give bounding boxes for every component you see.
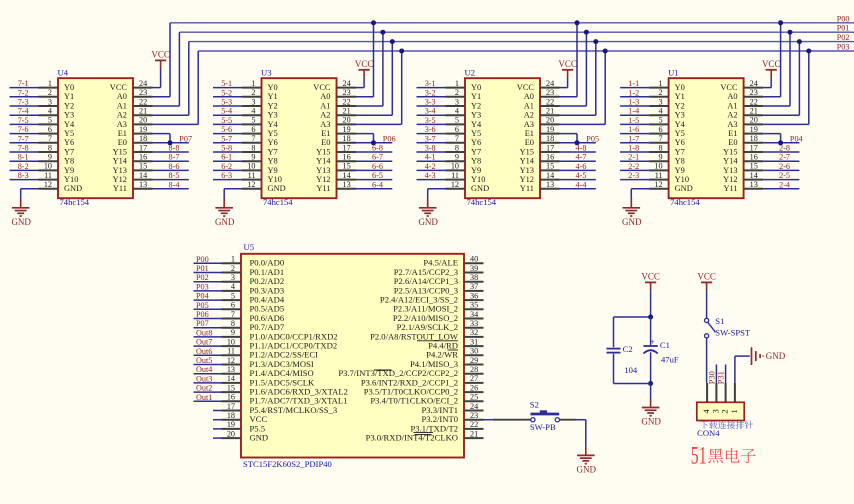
svg-text:Out5: Out5 xyxy=(196,356,212,365)
pin 28 of U5 xyxy=(464,365,484,374)
pin 11 of U4 xyxy=(39,171,59,180)
IC U3 74hc154 xyxy=(261,67,337,206)
svg-text:22: 22 xyxy=(343,97,351,106)
svg-text:Out8: Out8 xyxy=(196,328,212,337)
svg-text:GND: GND xyxy=(766,351,786,361)
pin 35 of U5 xyxy=(464,301,484,310)
svg-text:3-8: 3-8 xyxy=(425,144,436,153)
pin 15 of U2 xyxy=(540,162,560,171)
wire net 1-6 to U1 pin 6 xyxy=(620,133,649,135)
wire net 3-2 to U2 pin 2 xyxy=(417,96,446,98)
pin 20 of U2 xyxy=(540,116,560,125)
svg-text:VCC: VCC xyxy=(720,83,738,92)
wire U2 pin 23 A0 to bus P00 xyxy=(560,23,578,97)
wire net 6-3 to U3 pin 11 xyxy=(213,179,242,181)
svg-text:17: 17 xyxy=(139,143,147,152)
pin 13 of U4 xyxy=(133,180,153,189)
svg-text:P02: P02 xyxy=(837,33,850,42)
svg-text:15: 15 xyxy=(750,162,758,171)
svg-text:1: 1 xyxy=(729,409,739,413)
svg-text:9: 9 xyxy=(231,328,235,337)
pin 13 of U1 xyxy=(744,180,764,189)
pin 7 of U1 xyxy=(649,134,669,143)
wire U2 pin 20 A3 to bus P03 xyxy=(560,51,606,124)
pin 1 of U2 xyxy=(446,79,466,88)
svg-text:A1: A1 xyxy=(117,101,127,110)
svg-text:P02: P02 xyxy=(196,273,209,282)
pin 4 of U2 xyxy=(446,107,466,116)
svg-text:VCC: VCC xyxy=(110,83,128,92)
pin 4 of CON4 xyxy=(706,383,708,402)
svg-text:5-5: 5-5 xyxy=(221,116,232,125)
svg-text:28: 28 xyxy=(470,365,478,374)
IC U5 STC15F2K60S2_PDIP40 xyxy=(241,242,464,469)
svg-text:Y13: Y13 xyxy=(316,166,330,175)
svg-text:23: 23 xyxy=(343,88,351,97)
svg-text:3-4: 3-4 xyxy=(425,107,436,116)
pin 6 of U5 xyxy=(222,301,242,310)
pin 16 of U2 xyxy=(540,153,560,162)
svg-text:3-6: 3-6 xyxy=(425,125,436,134)
wire U5 pin 23 to S2 xyxy=(484,419,493,421)
pin 1 of U4 xyxy=(39,79,59,88)
svg-text:A3: A3 xyxy=(727,120,737,129)
svg-text:6: 6 xyxy=(48,125,52,134)
pin 24 of U4 xyxy=(133,79,153,88)
wire net 1-1 to U1 pin 1 xyxy=(620,87,649,89)
wire net 3-3 to U2 pin 3 xyxy=(417,105,446,107)
svg-text:19: 19 xyxy=(227,420,235,429)
wire U2 pin 22 A1 to bus P01 xyxy=(560,32,587,106)
wire net 3-8 to U2 pin 8 xyxy=(417,151,446,153)
wire U1 pin 21 A2 to bus P02 xyxy=(763,42,799,116)
capacitor C1 47uF polarized xyxy=(643,317,678,384)
wire U1 E0 pin18 net P04 xyxy=(763,142,799,144)
wire net 8-2 to U4 pin 10 xyxy=(10,169,39,171)
svg-text:1: 1 xyxy=(455,79,459,88)
bus wire P02 horizontal xyxy=(189,41,854,43)
svg-text:12: 12 xyxy=(654,180,662,189)
svg-text:P06: P06 xyxy=(196,310,209,319)
wire net 6-7 from U3 pin 16 xyxy=(356,160,392,162)
svg-text:16: 16 xyxy=(139,153,147,162)
svg-text:Out6: Out6 xyxy=(196,347,212,356)
svg-text:33: 33 xyxy=(470,319,478,328)
svg-text:4-6: 4-6 xyxy=(576,162,587,171)
pin 23 of U1 xyxy=(744,88,764,97)
pin 23 of U5 xyxy=(464,411,484,420)
svg-text:A1: A1 xyxy=(524,101,534,110)
svg-text:A2: A2 xyxy=(320,111,330,120)
pin 2 of U2 xyxy=(446,88,466,97)
svg-text:VCC: VCC xyxy=(558,59,577,69)
junction at U2 E0 xyxy=(575,140,580,145)
ground symbol at C1 xyxy=(641,398,661,427)
wire net 2-1 to U1 pin 9 xyxy=(620,160,649,162)
svg-text:23: 23 xyxy=(750,88,758,97)
svg-text:4-1: 4-1 xyxy=(425,153,436,162)
wire net 8-3 to U4 pin 11 xyxy=(10,179,39,181)
pin 5 of U1 xyxy=(649,116,669,125)
svg-text:1-7: 1-7 xyxy=(628,134,639,143)
pin 21 of U1 xyxy=(744,107,764,116)
svg-text:VCC: VCC xyxy=(355,59,374,69)
svg-text:Y1: Y1 xyxy=(471,92,481,101)
wire net 5-7 to U3 pin 7 xyxy=(213,142,242,144)
svg-text:2: 2 xyxy=(251,88,255,97)
pin 4 of U5 xyxy=(222,282,242,291)
svg-text:3-5: 3-5 xyxy=(425,116,436,125)
svg-text:19: 19 xyxy=(546,125,554,134)
wire net 7-8 to U4 pin 8 xyxy=(10,151,39,153)
svg-text:Y14: Y14 xyxy=(316,157,331,166)
svg-text:Y15: Y15 xyxy=(113,147,127,156)
svg-text:8: 8 xyxy=(231,319,235,328)
svg-text:12: 12 xyxy=(44,180,52,189)
pin 26 of U5 xyxy=(464,383,484,392)
wire U2 pin 24 to VCC xyxy=(560,78,568,88)
junction on bus P00 at U2 xyxy=(575,20,580,25)
svg-text:Y15: Y15 xyxy=(316,147,330,156)
svg-text:P03: P03 xyxy=(196,282,209,291)
svg-text:E1: E1 xyxy=(118,129,127,138)
svg-text:Y14: Y14 xyxy=(520,157,535,166)
svg-text:Y11: Y11 xyxy=(113,184,127,193)
pin 3 of U2 xyxy=(446,97,466,106)
svg-text:5: 5 xyxy=(659,116,663,125)
pin 4 of U1 xyxy=(649,107,669,116)
pin 21 of U4 xyxy=(133,107,153,116)
svg-text:11: 11 xyxy=(451,171,459,180)
svg-text:Y0: Y0 xyxy=(268,83,278,92)
svg-text:2-4: 2-4 xyxy=(779,180,790,189)
svg-text:Y7: Y7 xyxy=(471,147,481,156)
svg-text:5-1: 5-1 xyxy=(221,79,232,88)
svg-text:VCC: VCC xyxy=(517,83,535,92)
pin 12 of U3 xyxy=(242,180,262,189)
pin 12 of U4 xyxy=(39,180,59,189)
junction on bus P03 at U1 xyxy=(806,49,811,54)
svg-text:CON4: CON4 xyxy=(697,428,720,438)
svg-text:VCC: VCC xyxy=(697,271,716,281)
pin 32 of U5 xyxy=(464,328,484,337)
svg-text:7-3: 7-3 xyxy=(18,98,29,107)
svg-text:10: 10 xyxy=(44,162,52,171)
svg-text:C2: C2 xyxy=(623,344,633,354)
pin 39 of U5 xyxy=(464,264,484,273)
wire net P01 to U5 pin 2 xyxy=(194,272,222,274)
svg-text:Y0: Y0 xyxy=(471,83,481,92)
pin 30 of U5 xyxy=(464,347,484,356)
pin 6 of U1 xyxy=(649,125,669,134)
pin 8 of U4 xyxy=(39,143,59,152)
wire net 6-6 from U3 pin 15 xyxy=(356,169,392,171)
pin 33 of U5 xyxy=(464,319,484,328)
junction on bus P02 at U2 xyxy=(593,39,598,44)
svg-text:Out7: Out7 xyxy=(196,338,212,347)
svg-text:19: 19 xyxy=(343,125,351,134)
junction at U1 E0 xyxy=(778,140,783,145)
svg-text:A0: A0 xyxy=(117,92,127,101)
pin 9 of U4 xyxy=(39,153,59,162)
svg-text:3: 3 xyxy=(455,97,459,106)
pin 10 of U4 xyxy=(39,162,59,171)
svg-text:3-2: 3-2 xyxy=(425,88,436,97)
svg-text:3: 3 xyxy=(659,97,663,106)
svg-text:13: 13 xyxy=(343,180,351,189)
svg-text:10: 10 xyxy=(247,162,255,171)
wire U4 pin 24 to VCC xyxy=(153,68,161,87)
wire net 6-5 from U3 pin 14 xyxy=(356,179,392,181)
svg-text:A0: A0 xyxy=(524,92,534,101)
wire U3 pin 21 A2 to bus P02 xyxy=(356,42,392,116)
svg-text:5-7: 5-7 xyxy=(221,134,232,143)
pin 22 of U2 xyxy=(540,97,560,106)
svg-text:SW-SPST: SW-SPST xyxy=(715,328,751,338)
wire U2 E1 pin19 to E0 xyxy=(560,134,578,143)
ground symbol at CON4 sideways xyxy=(752,347,786,365)
wire net 8-8 from U4 pin 17 xyxy=(153,151,189,153)
pin 29 of U5 xyxy=(464,356,484,365)
svg-text:17: 17 xyxy=(343,143,351,152)
wire U1 pin 12 to ground xyxy=(631,189,649,208)
svg-text:74hc154: 74hc154 xyxy=(467,197,497,207)
pin 21 of U5 xyxy=(464,429,484,438)
pin 36 of U5 xyxy=(464,291,484,300)
wire stub U5 pin 18 xyxy=(213,419,222,421)
ground symbol at S2 xyxy=(577,446,597,475)
svg-text:1: 1 xyxy=(231,255,235,264)
wire U4 pin 21 A2 to bus P02 xyxy=(153,42,189,116)
svg-text:5: 5 xyxy=(455,116,459,125)
svg-text:25: 25 xyxy=(470,393,478,402)
junction on bus P02 at U3 xyxy=(390,39,395,44)
svg-text:4-5: 4-5 xyxy=(576,171,587,180)
pin 22 of U1 xyxy=(744,97,764,106)
svg-text:20: 20 xyxy=(750,116,758,125)
svg-text:Y13: Y13 xyxy=(113,166,127,175)
pin 1 of U3 xyxy=(242,79,262,88)
svg-text:40: 40 xyxy=(470,255,478,264)
pin 4 of U4 xyxy=(39,107,59,116)
svg-text:15: 15 xyxy=(343,162,351,171)
svg-text:Y9: Y9 xyxy=(268,166,278,175)
pin 13 of U2 xyxy=(540,180,560,189)
svg-text:51: 51 xyxy=(691,440,707,469)
pin 8 of U2 xyxy=(446,143,466,152)
wire net 3-5 to U2 pin 5 xyxy=(417,123,446,125)
pin 15 of U3 xyxy=(337,162,357,171)
svg-text:1: 1 xyxy=(659,79,663,88)
IC U2 74hc154 xyxy=(465,67,541,206)
bus wire P00 horizontal xyxy=(170,22,854,24)
svg-text:9: 9 xyxy=(455,153,459,162)
svg-text:Y1: Y1 xyxy=(675,92,685,101)
wire net 7-4 to U4 pin 4 xyxy=(10,114,39,116)
svg-text:P07: P07 xyxy=(196,319,209,328)
svg-text:74hc154: 74hc154 xyxy=(60,197,90,207)
svg-text:29: 29 xyxy=(470,356,478,365)
pin 17 of U5 xyxy=(222,402,242,411)
svg-text:4-7: 4-7 xyxy=(576,153,587,162)
svg-text:38: 38 xyxy=(470,273,478,282)
svg-text:1-8: 1-8 xyxy=(628,144,639,153)
svg-text:4: 4 xyxy=(455,107,459,116)
svg-text:23: 23 xyxy=(470,411,478,420)
svg-text:9: 9 xyxy=(251,153,255,162)
wire net Out3 to U5 pin 14 xyxy=(194,382,222,384)
svg-text:10: 10 xyxy=(654,162,662,171)
svg-text:20: 20 xyxy=(227,429,235,438)
pin 6 of U4 xyxy=(39,125,59,134)
wire U2 pin 12 to ground xyxy=(428,189,446,208)
svg-text:5-8: 5-8 xyxy=(221,144,232,153)
svg-text:C1: C1 xyxy=(660,340,670,350)
svg-text:Y6: Y6 xyxy=(268,138,278,147)
svg-text:17: 17 xyxy=(227,402,235,411)
svg-text:Y12: Y12 xyxy=(723,175,737,184)
svg-text:Y12: Y12 xyxy=(520,175,534,184)
svg-text:1-3: 1-3 xyxy=(628,98,639,107)
pin 25 of U5 xyxy=(464,393,484,402)
pin 13 of U3 xyxy=(337,180,357,189)
wire U3 pin 20 A3 to bus P03 xyxy=(356,51,402,124)
svg-text:Y8: Y8 xyxy=(471,157,481,166)
svg-text:5-4: 5-4 xyxy=(221,107,232,116)
svg-text:11: 11 xyxy=(655,171,663,180)
svg-text:Y9: Y9 xyxy=(675,166,685,175)
svg-text:23: 23 xyxy=(139,88,147,97)
pin 37 of U5 xyxy=(464,282,484,291)
svg-text:3-7: 3-7 xyxy=(425,134,436,143)
svg-text:Y0: Y0 xyxy=(675,83,685,92)
wire U4 pin 23 A0 to bus P00 xyxy=(153,23,171,97)
wire net Out6 to U5 pin 11 xyxy=(194,354,222,356)
pin 3 of U5 xyxy=(222,273,242,282)
power symbol VCC at U2 xyxy=(558,59,577,78)
pin 9 of U1 xyxy=(649,153,669,162)
svg-text:GND: GND xyxy=(622,217,642,227)
svg-text:Y6: Y6 xyxy=(675,138,685,147)
svg-text:P01: P01 xyxy=(196,264,209,273)
wire VCC to S1 xyxy=(706,290,708,318)
wire net P31 at CON4 pin 2 xyxy=(725,365,727,383)
svg-text:4: 4 xyxy=(48,107,52,116)
svg-text:E0: E0 xyxy=(118,138,127,147)
svg-text:2-2: 2-2 xyxy=(628,162,639,171)
pin 1 of U5 xyxy=(222,255,242,264)
svg-text:2: 2 xyxy=(659,88,663,97)
svg-text:14: 14 xyxy=(343,171,351,180)
wire U1 pin 22 A1 to bus P01 xyxy=(763,32,790,106)
svg-text:Y3: Y3 xyxy=(471,111,481,120)
IC U4 74hc154 xyxy=(58,67,134,206)
pin 21 of U3 xyxy=(337,107,357,116)
svg-text:1-5: 1-5 xyxy=(628,116,639,125)
svg-text:8-8: 8-8 xyxy=(169,144,180,153)
svg-text:P3.0/RXD/INT4/T2CLKO: P3.0/RXD/INT4/T2CLKO xyxy=(366,433,458,443)
IC U1 74hc154 xyxy=(668,67,744,206)
svg-text:7-4: 7-4 xyxy=(18,107,29,116)
wire net 7-6 to U4 pin 6 xyxy=(10,133,39,135)
svg-text:P06: P06 xyxy=(383,134,396,143)
svg-text:31: 31 xyxy=(470,337,478,346)
svg-text:15: 15 xyxy=(139,162,147,171)
wire U3 pin 22 A1 to bus P01 xyxy=(356,32,383,106)
svg-text:P07: P07 xyxy=(179,134,192,143)
svg-text:Y10: Y10 xyxy=(675,175,689,184)
svg-text:Y15: Y15 xyxy=(723,147,737,156)
svg-text:5-3: 5-3 xyxy=(221,98,232,107)
svg-text:Out1: Out1 xyxy=(196,393,212,402)
svg-text:8: 8 xyxy=(455,143,459,152)
svg-text:Y8: Y8 xyxy=(64,157,74,166)
svg-text:1-6: 1-6 xyxy=(628,125,639,134)
pin 14 of U4 xyxy=(133,171,153,180)
pin 20 of U1 xyxy=(744,116,764,125)
svg-text:Out3: Out3 xyxy=(196,374,212,383)
svg-text:18: 18 xyxy=(750,134,758,143)
text 51黑电子 xyxy=(691,440,756,469)
bus wire P03 horizontal xyxy=(198,50,854,52)
junction at C1 top xyxy=(648,315,653,320)
wire net Out7 to U5 pin 10 xyxy=(194,345,222,347)
pin 20 of U4 xyxy=(133,116,153,125)
svg-text:24: 24 xyxy=(139,79,147,88)
svg-text:3: 3 xyxy=(48,97,52,106)
svg-text:A3: A3 xyxy=(320,120,330,129)
svg-text:74hc154: 74hc154 xyxy=(263,197,293,207)
svg-text:GND: GND xyxy=(641,417,661,427)
wire net 3-4 to U2 pin 4 xyxy=(417,114,446,116)
pin 14 of U2 xyxy=(540,171,560,180)
svg-text:U5: U5 xyxy=(244,242,255,252)
svg-text:11: 11 xyxy=(248,171,256,180)
svg-text:Y10: Y10 xyxy=(471,175,485,184)
svg-text:E1: E1 xyxy=(321,129,330,138)
power symbol VCC at U4 xyxy=(151,49,170,68)
svg-text:21: 21 xyxy=(546,107,554,116)
svg-text:P00: P00 xyxy=(196,255,209,264)
svg-text:7-7: 7-7 xyxy=(18,134,29,143)
svg-text:Y13: Y13 xyxy=(723,166,737,175)
svg-text:E0: E0 xyxy=(525,138,534,147)
pin 34 of U5 xyxy=(464,310,484,319)
pin 7 of U4 xyxy=(39,134,59,143)
ground symbol at U4 xyxy=(11,198,31,227)
wire net 5-6 to U3 pin 6 xyxy=(213,133,242,135)
svg-text:3: 3 xyxy=(251,97,255,106)
svg-text:7: 7 xyxy=(231,310,235,319)
wire net 7-7 to U4 pin 7 xyxy=(10,142,39,144)
pin 22 of U4 xyxy=(133,97,153,106)
svg-text:5-6: 5-6 xyxy=(221,125,232,134)
svg-text:Y12: Y12 xyxy=(113,175,127,184)
text 下载连接排针 xyxy=(700,421,753,429)
svg-text:13: 13 xyxy=(546,180,554,189)
svg-text:7: 7 xyxy=(659,134,663,143)
ground symbol at U3 xyxy=(215,198,235,227)
pin 16 of U3 xyxy=(337,153,357,162)
wire net 1-7 to U1 pin 7 xyxy=(620,142,649,144)
svg-text:S1: S1 xyxy=(715,316,724,326)
svg-text:4-4: 4-4 xyxy=(576,180,587,189)
svg-text:P05: P05 xyxy=(586,134,599,143)
svg-text:3: 3 xyxy=(231,273,235,282)
svg-text:2-5: 2-5 xyxy=(779,171,790,180)
svg-text:Y14: Y14 xyxy=(113,157,128,166)
svg-text:4: 4 xyxy=(251,107,255,116)
